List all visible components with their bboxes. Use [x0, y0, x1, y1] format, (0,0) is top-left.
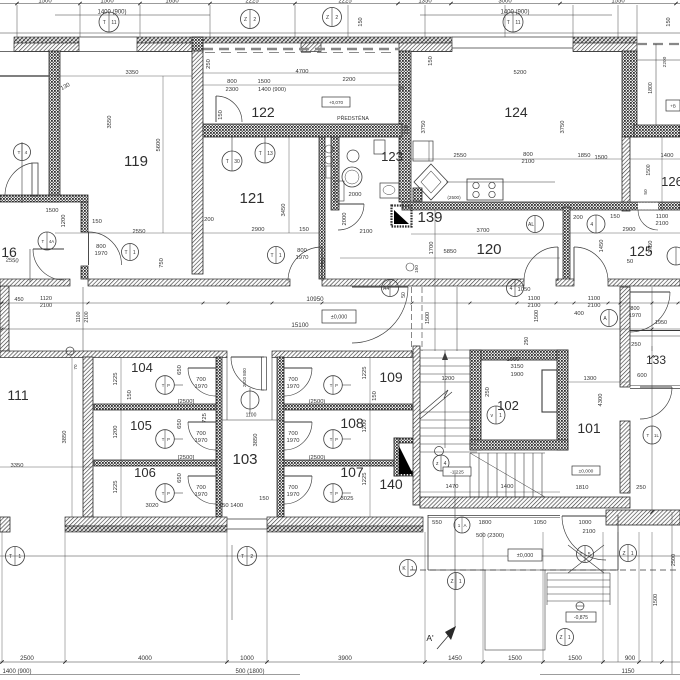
svg-text:2100: 2100 — [84, 311, 90, 322]
svg-text:T: T — [259, 151, 262, 157]
svg-text:2100: 2100 — [522, 159, 535, 165]
svg-text:150: 150 — [414, 265, 420, 273]
svg-text:106: 106 — [134, 465, 156, 480]
svg-text:3150: 3150 — [511, 364, 524, 370]
svg-text:+0,070: +0,070 — [329, 100, 344, 105]
svg-text:1500: 1500 — [568, 655, 582, 662]
svg-text:250: 250 — [485, 387, 491, 397]
svg-text:Z: Z — [451, 579, 454, 585]
svg-text:1000: 1000 — [579, 520, 592, 526]
svg-text:T: T — [507, 20, 510, 26]
svg-text:1400 (900): 1400 (900) — [258, 87, 286, 93]
svg-text:1100: 1100 — [528, 296, 540, 302]
svg-text:(2500): (2500) — [447, 195, 461, 200]
svg-text:2900: 2900 — [252, 227, 265, 233]
svg-text:105: 105 — [130, 418, 152, 433]
svg-text:650: 650 — [177, 365, 183, 375]
svg-text:1100: 1100 — [588, 296, 600, 302]
svg-text:3020: 3020 — [146, 503, 159, 509]
svg-text:700: 700 — [196, 431, 206, 437]
svg-text:133: 133 — [646, 353, 666, 367]
svg-text:1500: 1500 — [595, 155, 608, 161]
svg-text:1970: 1970 — [195, 438, 208, 444]
svg-text:1050: 1050 — [534, 520, 547, 526]
svg-text:250: 250 — [524, 337, 530, 346]
svg-text:1500: 1500 — [38, 0, 52, 5]
svg-text:1850: 1850 — [578, 153, 591, 159]
svg-text:1100: 1100 — [246, 413, 257, 419]
svg-text:3550: 3550 — [107, 116, 113, 129]
svg-text:2: 2 — [253, 17, 256, 23]
svg-text:5850: 5850 — [444, 249, 457, 255]
svg-text:P: P — [335, 437, 338, 442]
svg-text:PŘEDSTĚNA: PŘEDSTĚNA — [337, 114, 369, 122]
svg-text:400: 400 — [574, 311, 584, 317]
svg-text:1000: 1000 — [240, 655, 254, 662]
svg-text:800: 800 — [242, 368, 247, 376]
svg-text:Z: Z — [623, 551, 626, 557]
svg-text:1970: 1970 — [95, 251, 108, 257]
svg-text:10950: 10950 — [306, 296, 324, 303]
svg-text:700: 700 — [288, 431, 298, 437]
svg-text:1400: 1400 — [661, 153, 674, 159]
svg-text:1550: 1550 — [611, 0, 625, 5]
svg-text:124: 124 — [504, 104, 528, 120]
svg-text:T: T — [9, 554, 12, 560]
svg-text:11: 11 — [515, 20, 520, 26]
svg-text:T: T — [330, 383, 333, 388]
svg-text:700: 700 — [288, 485, 298, 491]
svg-text:107: 107 — [340, 464, 364, 480]
svg-text:800: 800 — [297, 248, 307, 254]
svg-text:104: 104 — [131, 360, 153, 375]
svg-text:750: 750 — [159, 258, 165, 268]
svg-text:1970: 1970 — [287, 438, 300, 444]
svg-text:1225: 1225 — [362, 367, 368, 380]
svg-text:101: 101 — [577, 420, 601, 436]
svg-text:1120: 1120 — [40, 296, 52, 302]
svg-text:200: 200 — [204, 217, 214, 223]
svg-text:4A: 4A — [49, 239, 54, 244]
svg-text:111: 111 — [7, 387, 28, 403]
svg-text:+B: +B — [670, 104, 676, 109]
svg-text:(2500): (2500) — [309, 455, 326, 461]
svg-text:1970: 1970 — [296, 255, 309, 261]
svg-text:-0,875: -0,875 — [574, 615, 588, 621]
svg-text:P: P — [335, 491, 338, 496]
svg-text:T: T — [162, 491, 165, 496]
svg-text:3850: 3850 — [253, 434, 259, 447]
svg-text:2550: 2550 — [454, 153, 467, 159]
svg-text:-1,225: -1,225 — [450, 470, 464, 476]
svg-text:2000: 2000 — [342, 213, 348, 226]
svg-text:T: T — [125, 250, 128, 256]
svg-text:1970: 1970 — [195, 492, 208, 498]
svg-text:2100: 2100 — [40, 303, 52, 309]
svg-text:800: 800 — [227, 79, 237, 85]
svg-text:4: 4 — [590, 222, 593, 228]
svg-text:2: 2 — [250, 554, 253, 560]
svg-text:725: 725 — [202, 413, 208, 423]
svg-text:35: 35 — [398, 86, 404, 92]
svg-text:103: 103 — [232, 451, 257, 468]
svg-text:±0,000: ±0,000 — [579, 469, 594, 475]
svg-text:1500: 1500 — [258, 79, 271, 85]
svg-text:1: 1 — [631, 551, 634, 557]
svg-text:30: 30 — [234, 159, 240, 165]
svg-text:1300: 1300 — [584, 376, 597, 382]
svg-text:3750: 3750 — [421, 121, 427, 134]
svg-text:1970: 1970 — [195, 384, 208, 390]
svg-text:1000: 1000 — [507, 357, 520, 363]
svg-text:1225: 1225 — [362, 473, 368, 486]
svg-text:A4: A4 — [383, 286, 389, 292]
svg-text:2000: 2000 — [349, 192, 362, 198]
svg-text:109: 109 — [379, 369, 403, 385]
svg-text:3850: 3850 — [62, 431, 68, 444]
svg-text:1100: 1100 — [76, 311, 82, 322]
svg-text:800: 800 — [523, 152, 533, 158]
svg-text:2020: 2020 — [242, 376, 247, 387]
svg-text:T: T — [646, 433, 649, 438]
svg-text:1400: 1400 — [501, 484, 514, 490]
svg-text:1500: 1500 — [425, 312, 431, 324]
svg-text:1: 1 — [499, 413, 502, 419]
svg-text:3350: 3350 — [126, 70, 139, 76]
svg-text:450: 450 — [14, 297, 23, 303]
svg-text:1500: 1500 — [534, 310, 540, 322]
svg-text:4: 4 — [444, 461, 447, 467]
svg-text:70: 70 — [73, 364, 78, 370]
svg-text:700: 700 — [196, 377, 206, 383]
svg-text:T: T — [226, 159, 229, 165]
svg-text:250: 250 — [636, 485, 646, 491]
svg-text:3025: 3025 — [341, 496, 354, 502]
svg-text:150: 150 — [218, 110, 224, 120]
svg-text:700: 700 — [288, 377, 298, 383]
svg-text:150: 150 — [372, 391, 378, 401]
svg-text:3350: 3350 — [11, 463, 24, 469]
svg-text:1750: 1750 — [648, 241, 654, 254]
svg-text:200: 200 — [573, 215, 583, 221]
svg-text:T: T — [330, 437, 333, 442]
svg-text:1200: 1200 — [442, 376, 455, 382]
svg-text:1: 1 — [459, 579, 462, 585]
svg-text:1: 1 — [279, 253, 282, 259]
svg-text:150: 150 — [428, 56, 434, 66]
svg-text:122: 122 — [251, 104, 275, 120]
svg-text:2100: 2100 — [588, 303, 601, 309]
svg-text:2200: 2200 — [343, 77, 356, 83]
svg-text:A': A' — [426, 633, 434, 643]
svg-text:2100: 2100 — [528, 303, 541, 309]
svg-text:3900: 3900 — [338, 655, 352, 662]
svg-text:2225: 2225 — [245, 0, 259, 5]
svg-text:150: 150 — [259, 496, 269, 502]
svg-text:1500: 1500 — [646, 164, 652, 175]
svg-text:1: 1 — [411, 566, 414, 572]
svg-text:Z: Z — [244, 17, 247, 23]
svg-text:139: 139 — [417, 209, 442, 226]
svg-text:108: 108 — [340, 415, 364, 431]
svg-text:123: 123 — [381, 149, 403, 164]
svg-text:1: 1 — [458, 523, 461, 528]
svg-text:150: 150 — [666, 17, 672, 26]
svg-text:T: T — [580, 552, 583, 558]
svg-text:1: 1 — [133, 250, 136, 256]
svg-text:120: 120 — [476, 241, 501, 258]
svg-text:1225: 1225 — [113, 481, 119, 494]
svg-text:1450: 1450 — [448, 655, 462, 662]
svg-text:1500: 1500 — [100, 0, 114, 5]
svg-text:150: 150 — [127, 390, 133, 400]
svg-text:T: T — [162, 383, 165, 388]
svg-text:2500: 2500 — [671, 554, 677, 566]
svg-text:1500: 1500 — [508, 655, 522, 662]
svg-text:250: 250 — [631, 342, 641, 348]
svg-text:650: 650 — [177, 473, 183, 483]
svg-text:700: 700 — [196, 485, 206, 491]
svg-text:150 1400: 150 1400 — [219, 503, 243, 509]
svg-text:[2500]: [2500] — [178, 455, 195, 461]
svg-text:500 (2300): 500 (2300) — [476, 533, 504, 539]
svg-text:2100: 2100 — [360, 229, 373, 235]
svg-text:1800: 1800 — [648, 82, 654, 94]
svg-text:550: 550 — [432, 520, 442, 526]
svg-text:500 (1800): 500 (1800) — [235, 669, 264, 675]
svg-text:50: 50 — [627, 259, 633, 265]
svg-text:2900: 2900 — [623, 227, 636, 233]
svg-text:5200: 5200 — [514, 70, 527, 76]
svg-text:1450: 1450 — [599, 240, 605, 253]
svg-text:150: 150 — [358, 17, 364, 26]
svg-text:1200: 1200 — [362, 420, 368, 433]
svg-text:(2500): (2500) — [309, 399, 326, 405]
svg-text:1800: 1800 — [479, 520, 492, 526]
svg-text:2225: 2225 — [338, 0, 352, 5]
svg-text:126: 126 — [661, 174, 680, 189]
svg-text:750: 750 — [321, 258, 327, 268]
svg-text:T: T — [330, 491, 333, 496]
svg-text:2100: 2100 — [656, 221, 669, 227]
svg-text:Z: Z — [560, 635, 563, 641]
svg-text:4: 4 — [510, 286, 513, 292]
svg-text:1970: 1970 — [629, 313, 641, 319]
svg-text:800: 800 — [96, 244, 106, 250]
svg-text:1100: 1100 — [656, 214, 668, 220]
svg-text:±0,000: ±0,000 — [331, 315, 347, 321]
svg-text:AL: AL — [528, 222, 534, 228]
svg-text:1200: 1200 — [113, 426, 119, 439]
svg-text:50: 50 — [401, 292, 407, 298]
svg-text:2300: 2300 — [226, 87, 239, 93]
svg-text:1650: 1650 — [165, 0, 179, 5]
svg-text:4: 4 — [25, 150, 28, 156]
svg-text:P: P — [167, 437, 170, 442]
svg-text:150: 150 — [92, 219, 102, 225]
svg-text:P: P — [335, 383, 338, 388]
svg-text:T: T — [41, 239, 44, 244]
svg-text:800: 800 — [630, 306, 639, 312]
svg-text:4300: 4300 — [598, 394, 604, 407]
svg-text:[2500]: [2500] — [178, 399, 195, 405]
svg-text:1970: 1970 — [287, 384, 300, 390]
svg-text:1: 1 — [568, 635, 571, 641]
svg-text:±0,000: ±0,000 — [517, 553, 533, 559]
svg-text:5600: 5600 — [156, 139, 162, 152]
svg-text:102: 102 — [497, 398, 519, 413]
svg-text:119: 119 — [124, 153, 148, 170]
svg-text:2550: 2550 — [133, 229, 146, 235]
svg-text:1970: 1970 — [287, 492, 300, 498]
svg-text:P: P — [167, 491, 170, 496]
svg-text:600: 600 — [637, 373, 647, 379]
svg-text:1200: 1200 — [61, 215, 67, 228]
svg-text:150: 150 — [610, 214, 620, 220]
svg-text:2: 2 — [335, 15, 338, 21]
svg-text:2100: 2100 — [583, 529, 596, 535]
svg-text:150: 150 — [299, 227, 309, 233]
svg-text:11: 11 — [111, 20, 116, 26]
svg-text:1950: 1950 — [655, 320, 667, 326]
svg-text:140: 140 — [379, 476, 403, 492]
svg-text:5: 5 — [588, 552, 591, 558]
svg-text:1810: 1810 — [576, 485, 589, 491]
svg-text:3750: 3750 — [560, 121, 566, 134]
svg-text:T: T — [162, 437, 165, 442]
svg-text:3450: 3450 — [281, 204, 287, 217]
svg-text:900: 900 — [625, 655, 636, 662]
svg-text:1150: 1150 — [622, 669, 636, 675]
svg-text:650: 650 — [177, 419, 183, 429]
svg-text:1050: 1050 — [518, 287, 531, 293]
svg-text:3700: 3700 — [477, 228, 490, 234]
svg-text:1500: 1500 — [653, 594, 659, 606]
svg-text:13: 13 — [267, 151, 273, 157]
svg-text:T: T — [18, 150, 21, 156]
svg-text:1500: 1500 — [46, 208, 59, 214]
svg-text:P: P — [167, 383, 170, 388]
svg-text:1225: 1225 — [113, 373, 119, 386]
svg-text:1L: 1L — [654, 433, 659, 438]
svg-text:1: 1 — [18, 554, 21, 560]
svg-text:250: 250 — [404, 125, 410, 135]
svg-text:1700: 1700 — [429, 242, 435, 255]
svg-text:T: T — [241, 554, 244, 560]
svg-text:2550: 2550 — [5, 257, 18, 264]
svg-text:3000: 3000 — [498, 0, 512, 5]
svg-text:4000: 4000 — [138, 655, 152, 662]
svg-text:1470: 1470 — [446, 484, 459, 490]
svg-text:2500: 2500 — [20, 655, 34, 662]
svg-text:4700: 4700 — [296, 69, 309, 75]
svg-text:1350: 1350 — [418, 0, 432, 5]
svg-text:250: 250 — [206, 59, 212, 69]
svg-text:121: 121 — [239, 190, 264, 207]
svg-text:T: T — [271, 253, 274, 259]
svg-text:Z: Z — [326, 15, 329, 21]
svg-text:15100: 15100 — [291, 322, 309, 329]
svg-text:1400 (900): 1400 (900) — [2, 669, 31, 675]
svg-text:50: 50 — [643, 189, 649, 195]
svg-text:2200: 2200 — [662, 56, 668, 67]
svg-text:1900: 1900 — [511, 372, 524, 378]
svg-text:T: T — [103, 20, 106, 26]
